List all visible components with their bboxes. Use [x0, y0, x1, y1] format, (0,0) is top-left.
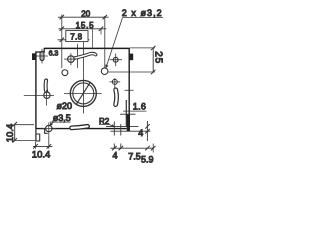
- svg-text:5.9: 5.9: [141, 155, 154, 165]
- right edge: [128, 48, 130, 114]
- right top tab: [129, 54, 133, 61]
- svg-text:10.4: 10.4: [32, 150, 51, 161]
- svg-text:7.8: 7.8: [70, 33, 82, 42]
- svg-text:ø20: ø20: [57, 101, 73, 111]
- big circle o20 outer: [70, 80, 96, 106]
- dimension 25 right: [108, 46, 155, 75]
- label R2 with leader: [99, 124, 115, 127]
- svg-text:25: 25: [153, 51, 164, 64]
- top-left slot centerline v: [41, 49, 43, 64]
- dimension 10.4 bottom: [33, 136, 53, 149]
- slot end extension line a: [77, 44, 79, 68]
- step line: [120, 113, 136, 115]
- dimension 10.4 left: [13, 122, 37, 143]
- top keyhole circle with cross: [64, 53, 77, 65]
- bottom hole o3.5 with cross: [40, 123, 57, 136]
- part body outline: [32, 48, 133, 129]
- notch left line: [113, 122, 115, 149]
- big circle h centerline: [64, 92, 102, 94]
- notch right line: [120, 124, 122, 149]
- svg-text:4: 4: [138, 128, 143, 138]
- svg-text:15.5: 15.5: [76, 21, 95, 30]
- label o3,5 with leader: [50, 122, 71, 126]
- left hole o3.2: [62, 70, 68, 76]
- right edge tick: [125, 89, 134, 91]
- svg-text:10.4: 10.4: [5, 124, 16, 143]
- bottom right chain dimension line: [110, 144, 155, 153]
- svg-text:2 x ø3,2: 2 x ø3,2: [122, 8, 163, 18]
- terminal bar filled: [127, 114, 130, 131]
- svg-text:4: 4: [113, 150, 118, 160]
- left slot centerline v: [45, 90, 47, 106]
- top-left slot centerline h: [37, 55, 48, 57]
- groove line: [106, 125, 139, 127]
- bottom-left tab: [36, 129, 48, 142]
- left slot centerline h (crosses part edge): [24, 94, 54, 96]
- right hole o3.2 (leader target): [101, 68, 108, 75]
- top-left corner step: [35, 48, 44, 52]
- big circle o20 inner: [73, 83, 94, 104]
- bottom edge: [36, 128, 127, 130]
- svg-text:ø3,5: ø3,5: [53, 113, 71, 123]
- bottom-right structure: [106, 100, 150, 149]
- svg-text:R2: R2: [99, 117, 110, 126]
- svg-text:7.5: 7.5: [128, 152, 141, 162]
- left curved slot: [24, 81, 54, 106]
- top keyhole slot tube: [74, 53, 96, 58]
- label 2 x o3,2 with leader: [105, 18, 163, 68]
- terminal bottom line: [110, 130, 150, 132]
- 1.6 leader line: [123, 110, 147, 112]
- top edge: [44, 47, 129, 49]
- svg-text:20: 20: [81, 9, 90, 18]
- svg-text:6.3: 6.3: [49, 51, 59, 58]
- right keyhole circle with cross: [110, 78, 121, 89]
- top-right hole with cross: [110, 54, 123, 67]
- big circle v centerline: [82, 42, 84, 114]
- inner right edge: [125, 100, 127, 127]
- dimension 7.8 boxed: [58, 31, 90, 42]
- dimension 4 vertical right: [145, 121, 150, 141]
- dimension 20: [58, 15, 109, 69]
- svg-text:1.6: 1.6: [133, 102, 146, 112]
- bottom curved slot: [72, 126, 88, 128]
- top-left slot: [37, 49, 48, 64]
- big circle chord: [76, 82, 91, 105]
- left edge: [35, 52, 37, 129]
- left top notch: [32, 53, 36, 60]
- right curved slot: [113, 90, 119, 105]
- dimension 15.5: [59, 27, 107, 48]
